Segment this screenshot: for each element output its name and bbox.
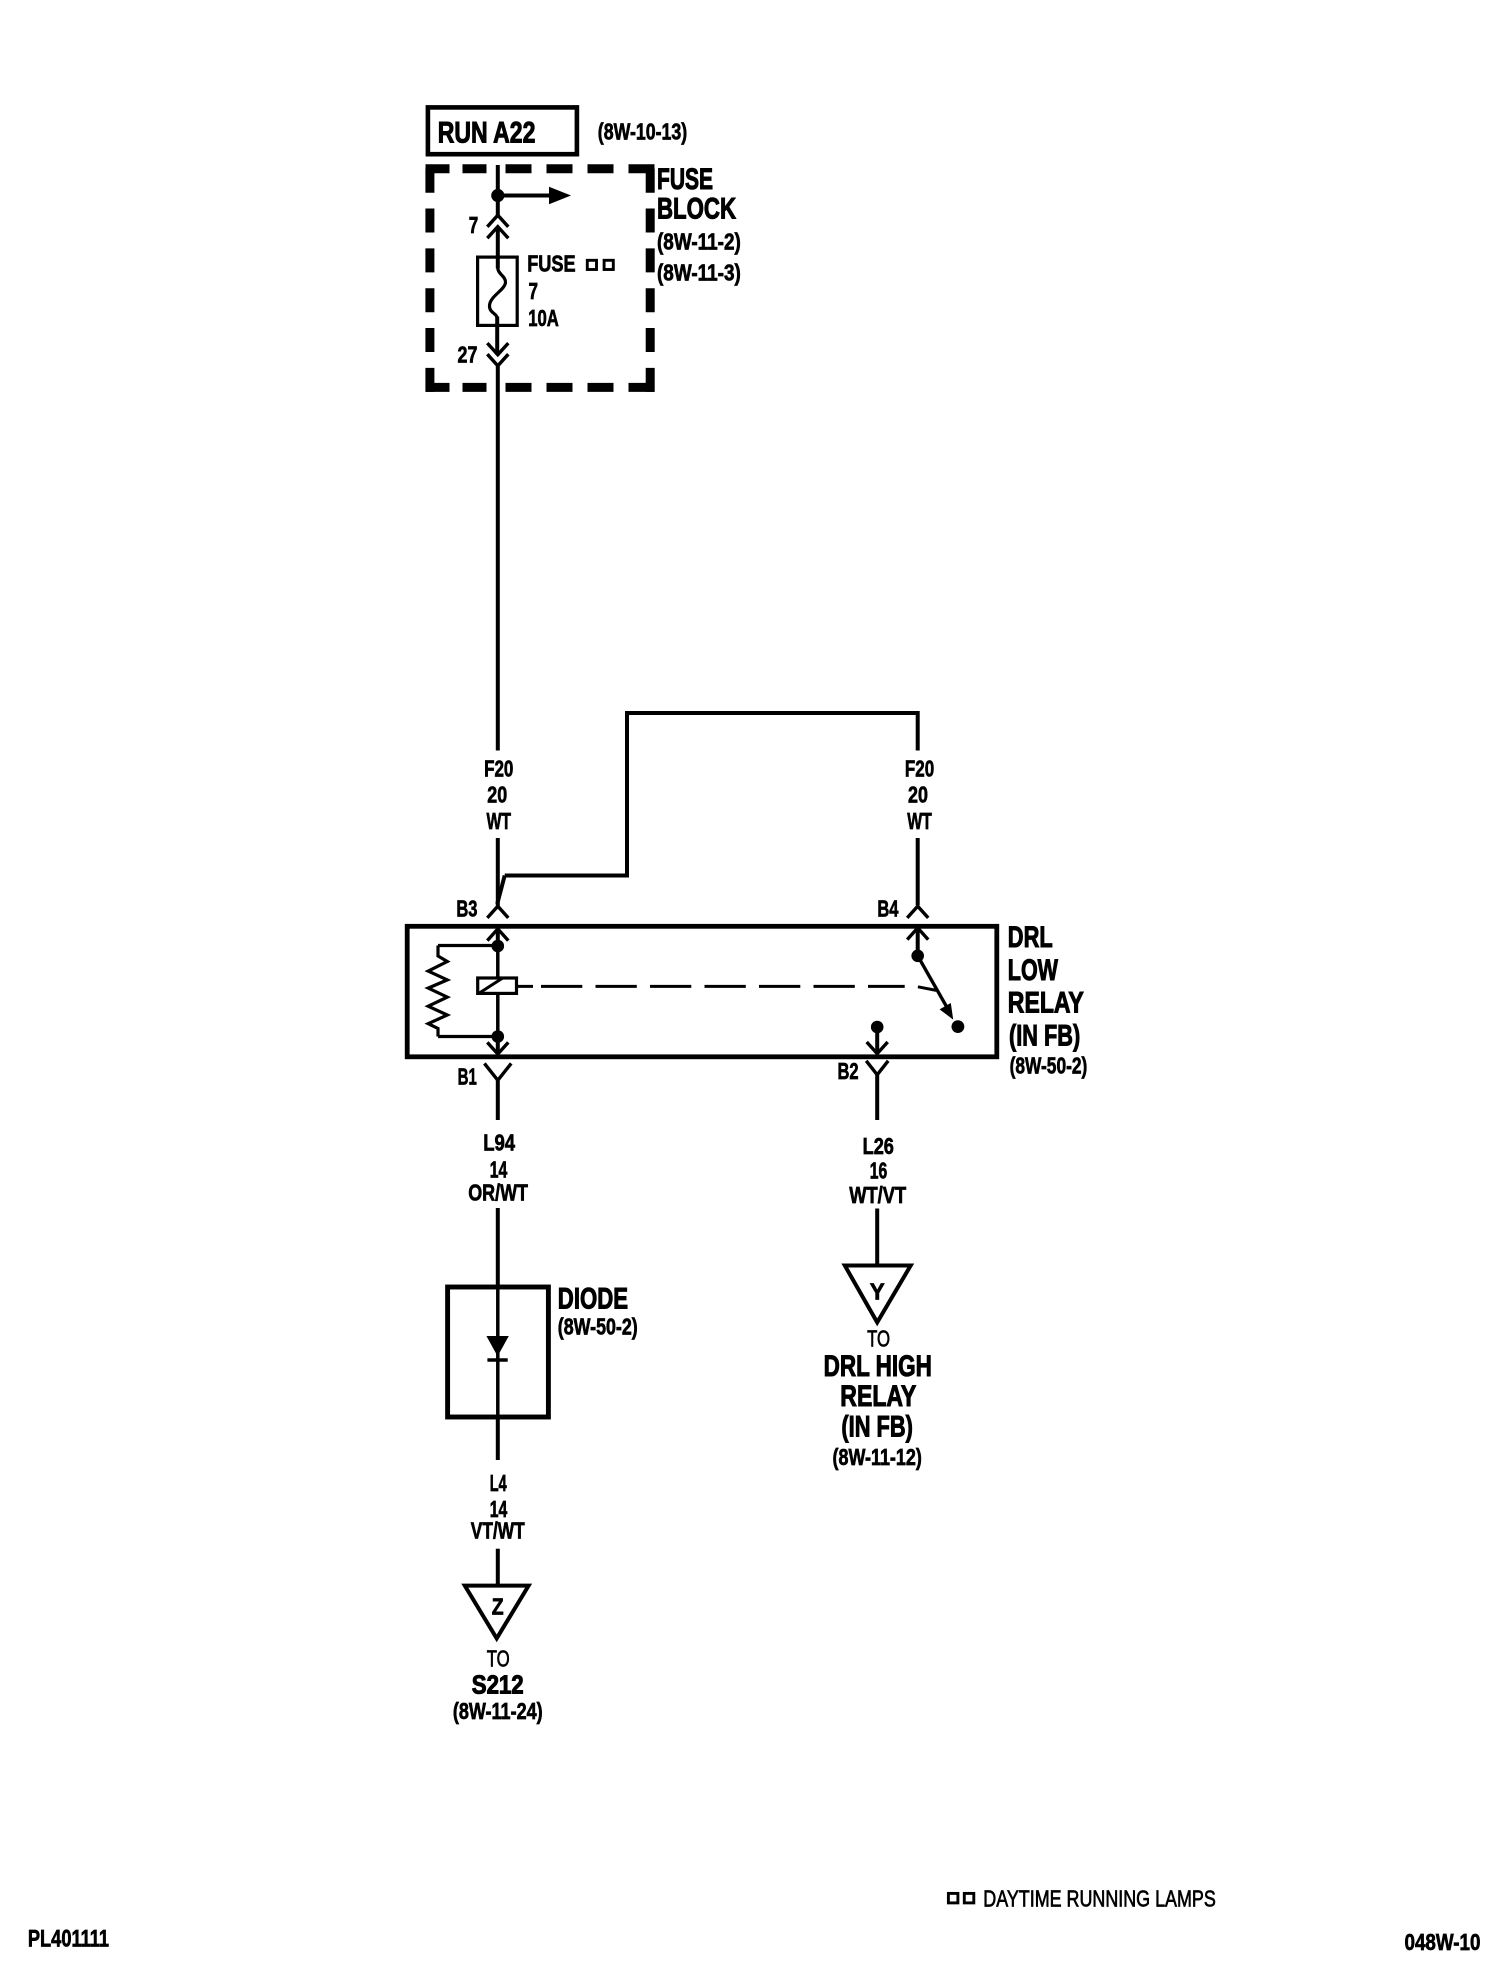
wire: B2 to L26 <box>875 1075 879 1120</box>
wire: B3 chevron to coil dot <box>496 929 500 946</box>
mech link dashed line <box>541 985 905 988</box>
wire: right WT to B4 <box>916 838 920 905</box>
svg-text:LOW: LOW <box>1008 954 1059 987</box>
svg-text:VT/WT: VT/WT <box>471 1518 525 1544</box>
wire through diode <box>496 1287 500 1419</box>
pin B4 connector chevrons <box>907 906 928 918</box>
svg-text:DAYTIME RUNNING LAMPS: DAYTIME RUNNING LAMPS <box>983 1886 1216 1912</box>
wire: WT to B3 <box>496 838 500 906</box>
pin B1 connector chevrons <box>487 1042 508 1054</box>
wire F20 upper left segment <box>496 366 500 751</box>
svg-text:Z: Z <box>492 1594 504 1620</box>
svg-text:OR/WT: OR/WT <box>468 1179 528 1205</box>
svg-text:F20: F20 <box>484 756 513 782</box>
fuse element S-curve <box>490 268 506 318</box>
switch arm arrowhead <box>940 1003 954 1020</box>
switch arm <box>918 956 948 1009</box>
svg-text:F20: F20 <box>905 756 934 782</box>
svg-text:DRL: DRL <box>1008 921 1053 954</box>
fuse block dashed outline bottom <box>426 383 493 392</box>
wire: B1 to L94 <box>496 1080 500 1120</box>
wire: bridge down to right F20 <box>916 711 920 751</box>
RUN A22 feed box <box>428 107 577 154</box>
pin B3 connector chevrons <box>487 906 508 918</box>
fuse block dashed outline left <box>425 169 434 392</box>
wire: dot to pin 7 <box>496 196 500 216</box>
coil slash <box>479 978 503 993</box>
legend square 1 <box>948 1893 958 1903</box>
fuse block dashed outline top <box>426 164 493 173</box>
wire: fuse to pin 27 <box>495 317 499 355</box>
svg-text:FUSE: FUSE <box>657 163 713 196</box>
wire: resistor top link <box>438 944 498 947</box>
svg-text:WT/VT: WT/VT <box>849 1182 906 1208</box>
svg-text:B4: B4 <box>877 896 898 922</box>
B2 junction dot <box>871 1021 884 1034</box>
svg-text:20: 20 <box>487 781 507 807</box>
legend square 2 <box>964 1893 974 1903</box>
svg-text:Y: Y <box>870 1279 885 1305</box>
svg-text:B3: B3 <box>456 895 477 921</box>
svg-text:048W-10: 048W-10 <box>1405 1929 1481 1955</box>
svg-text:S212: S212 <box>472 1669 524 1699</box>
svg-text:(8W-11-24): (8W-11-24) <box>453 1698 543 1724</box>
pin B2 connector chevrons <box>867 1042 888 1054</box>
wire: B4 chevron to pivot dot <box>916 928 920 956</box>
svg-text:(8W-11-3): (8W-11-3) <box>657 260 741 286</box>
wire: pin 7 to fuse <box>496 227 500 269</box>
svg-text:27: 27 <box>458 342 478 368</box>
wire: bridge horizontal top <box>625 711 918 715</box>
svg-text:RELAY: RELAY <box>1008 987 1084 1020</box>
wire: VT/WT to connector Z <box>496 1549 500 1586</box>
svg-text:(IN FB): (IN FB) <box>1009 1020 1080 1053</box>
svg-text:TO: TO <box>487 1645 510 1671</box>
connector Z triangle <box>465 1586 529 1639</box>
svg-text:L94: L94 <box>483 1130 515 1156</box>
svg-text:(IN FB): (IN FB) <box>841 1411 913 1444</box>
junction dot coil bottom <box>492 1030 505 1043</box>
mech link solid stub <box>517 985 534 988</box>
svg-text:7: 7 <box>529 278 539 304</box>
svg-text:16: 16 <box>870 1157 888 1183</box>
switch pivot dot <box>911 950 924 963</box>
svg-text:WT: WT <box>487 808 512 834</box>
wire: resistor bottom link <box>438 1035 498 1038</box>
junction dot B3 <box>492 940 505 953</box>
svg-text:WT: WT <box>907 808 932 834</box>
svg-text:RUN A22: RUN A22 <box>438 117 536 150</box>
wire: branch vertical riser <box>625 711 629 878</box>
wire: OR/WT to diode <box>496 1208 500 1287</box>
wire: WT/VT to connector Y <box>875 1209 879 1266</box>
arrowhead <box>549 187 571 204</box>
fuse 7 10A body <box>478 257 518 325</box>
svg-text:7: 7 <box>469 212 479 238</box>
svg-text:B2: B2 <box>838 1058 859 1084</box>
wire: B2 dot to chevron <box>875 1027 879 1054</box>
svg-text:(8W-50-2): (8W-50-2) <box>1010 1053 1088 1079</box>
svg-text:RELAY: RELAY <box>840 1380 916 1413</box>
mech link bend dash <box>918 987 936 991</box>
svg-text:PL401111: PL401111 <box>28 1926 109 1953</box>
diode box <box>448 1287 549 1417</box>
pin 7 connector chevrons <box>487 215 508 227</box>
svg-text:L4: L4 <box>490 1470 507 1496</box>
junction dot <box>491 189 504 202</box>
diode bar <box>487 1358 507 1362</box>
fuse block dashed outline right <box>646 169 655 392</box>
diode triangle <box>486 1336 508 1356</box>
wire: RUN A22 into fuse block <box>496 165 500 196</box>
wire: diode to L4 <box>496 1419 500 1460</box>
svg-text:(8W-50-2): (8W-50-2) <box>558 1314 638 1340</box>
svg-text:(8W-10-13): (8W-10-13) <box>598 119 687 145</box>
svg-text:BLOCK: BLOCK <box>657 192 736 225</box>
svg-text:DIODE: DIODE <box>558 1282 628 1315</box>
DRL LOW relay box <box>407 926 997 1057</box>
svg-text:FUSE: FUSE <box>527 251 575 277</box>
DRL legend square 1 <box>587 260 596 269</box>
wire: branch diagonal at B3 <box>497 876 505 905</box>
svg-text:L26: L26 <box>863 1133 894 1159</box>
wire: coil vertical <box>496 946 500 1037</box>
wire: branch horizontal low <box>505 874 627 878</box>
wire: arrow branch <box>498 194 550 198</box>
DRL legend square 2 <box>604 260 613 269</box>
svg-text:(8W-11-12): (8W-11-12) <box>833 1444 922 1470</box>
svg-text:DRL HIGH: DRL HIGH <box>824 1350 932 1383</box>
svg-text:(8W-11-2): (8W-11-2) <box>657 229 741 255</box>
relay coil box <box>478 978 517 993</box>
svg-text:10A: 10A <box>528 305 559 331</box>
connector Y triangle <box>845 1266 911 1323</box>
svg-text:20: 20 <box>908 781 928 807</box>
switch contact dot <box>952 1020 965 1033</box>
resistor <box>428 946 447 1037</box>
svg-text:TO: TO <box>867 1326 890 1352</box>
svg-text:B1: B1 <box>458 1064 477 1090</box>
pin 27 connector chevrons <box>487 343 508 355</box>
wire: dot to B1 chevron <box>496 1037 500 1055</box>
